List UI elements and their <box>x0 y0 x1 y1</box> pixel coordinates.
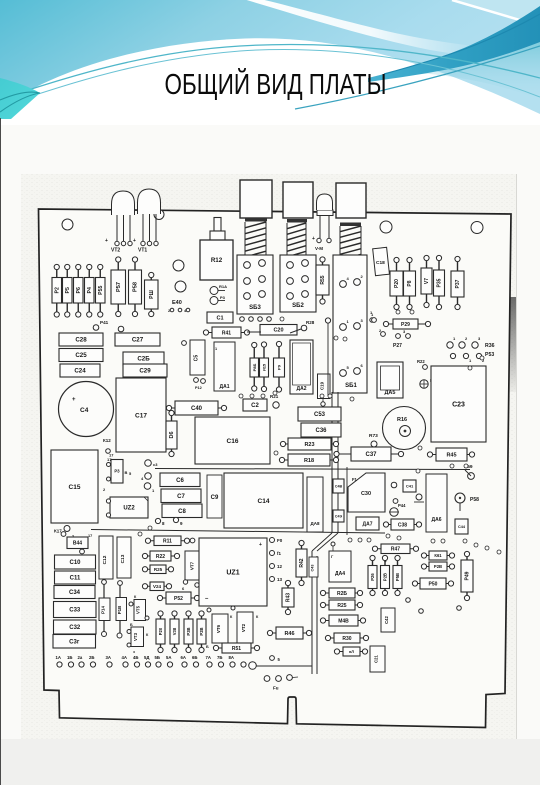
svg-text:Б: Б <box>206 645 209 649</box>
svg-text:Р49: Р49 <box>465 571 471 580</box>
svg-text:R42: R42 <box>299 558 305 567</box>
svg-text:VT2: VT2 <box>111 248 120 254</box>
svg-text:2Б: 2Б <box>89 655 94 660</box>
svg-text:R30: R30 <box>342 636 351 642</box>
svg-text:6А: 6А <box>181 655 187 660</box>
svg-text:R43: R43 <box>286 593 292 602</box>
svg-text:В: В <box>125 470 128 475</box>
svg-text:R41: R41 <box>222 330 231 336</box>
svg-text:VT3: VT3 <box>133 632 138 641</box>
svg-text:C16: C16 <box>227 438 239 445</box>
svg-text:+: + <box>384 559 387 564</box>
svg-text:C6: C6 <box>176 478 184 484</box>
svg-text:C4Э: C4Э <box>335 514 343 518</box>
svg-text:+: + <box>259 542 262 548</box>
svg-text:7Б: 7Б <box>217 655 222 660</box>
svg-text:V7: V7 <box>424 278 430 284</box>
svg-text:C38: C38 <box>398 522 407 528</box>
svg-text:С17: С17 <box>135 412 147 419</box>
svg-text:5А: 5А <box>166 655 172 660</box>
svg-text:SБ2: SБ2 <box>292 303 304 309</box>
svg-text:R28: R28 <box>306 320 315 325</box>
svg-text:С30: С30 <box>361 491 371 497</box>
svg-text:Fu: Fu <box>273 686 279 691</box>
svg-text:R2Б: R2Б <box>337 591 347 597</box>
svg-text:P35: P35 <box>437 278 443 287</box>
svg-text:R18: R18 <box>304 458 314 464</box>
svg-text:8А: 8А <box>229 655 235 660</box>
svg-text:Р41: Р41 <box>100 320 109 325</box>
svg-text:ДА2: ДА2 <box>297 386 307 392</box>
svg-text:R45: R45 <box>446 452 456 458</box>
svg-text:C53: C53 <box>314 412 326 418</box>
svg-text:C5: C5 <box>194 355 200 362</box>
svg-text:С2Б: С2Б <box>137 356 150 363</box>
svg-text:ДА5: ДА5 <box>385 390 396 396</box>
svg-text:P20: P20 <box>394 279 400 288</box>
svg-text:К61: К61 <box>434 553 442 558</box>
svg-text:R1А: R1А <box>219 284 227 289</box>
svg-text:VT5: VT5 <box>136 605 141 614</box>
svg-text:P37: P37 <box>455 279 461 288</box>
svg-text:Р5: Р5 <box>65 287 71 293</box>
svg-text:В44: В44 <box>73 541 82 547</box>
svg-text:Р6: Р6 <box>76 287 82 293</box>
svg-text:С32: С32 <box>69 625 81 631</box>
svg-text:E40: E40 <box>172 300 182 306</box>
svg-text:С20: С20 <box>273 328 283 334</box>
svg-text:+: + <box>312 236 315 242</box>
svg-text:Р8Б: Р8Б <box>252 363 257 371</box>
svg-text:Р2: Р2 <box>54 287 60 293</box>
svg-text:Р50: Р50 <box>429 581 438 587</box>
svg-text:V38: V38 <box>172 627 177 635</box>
svg-text:R36: R36 <box>485 343 495 349</box>
svg-text:VТ2: VТ2 <box>241 623 246 632</box>
svg-text:P53: P53 <box>485 352 494 358</box>
svg-text:13: 13 <box>277 577 283 582</box>
svg-text:F0: F0 <box>277 538 283 543</box>
svg-text:И15: И15 <box>262 363 267 371</box>
svg-text:C7: C7 <box>177 494 185 500</box>
svg-text:Р55: Р55 <box>98 286 104 295</box>
svg-text:С27: С27 <box>132 337 144 344</box>
svg-text:C23: C23 <box>452 401 465 408</box>
svg-text:C4: C4 <box>80 407 89 414</box>
svg-text:R25: R25 <box>337 603 346 609</box>
svg-text:Р2В: Р2В <box>434 564 442 569</box>
svg-text:нЛ: нЛ <box>349 649 354 654</box>
svg-text:Р4: Р4 <box>87 287 93 293</box>
svg-text:17: 17 <box>88 534 92 538</box>
svg-text:C2: C2 <box>251 403 259 409</box>
svg-text:+: + <box>72 397 76 403</box>
svg-text:C15: C15 <box>69 484 81 491</box>
svg-text:С37: С37 <box>365 452 377 458</box>
svg-text:F1: F1 <box>352 477 358 482</box>
svg-text:ДА4: ДА4 <box>335 571 345 577</box>
svg-text:+: + <box>105 238 108 244</box>
svg-text:R22: R22 <box>417 359 425 364</box>
svg-text:4А: 4А <box>122 655 128 660</box>
svg-text:С28: С28 <box>75 337 87 344</box>
svg-text:С13: С13 <box>120 554 126 563</box>
svg-text:Р3В: Р3В <box>186 627 191 635</box>
svg-text:ДА6: ДА6 <box>432 517 442 523</box>
svg-text:1А: 1А <box>56 655 62 660</box>
svg-text:Р26: Р26 <box>370 573 375 581</box>
svg-text:P52: P52 <box>174 596 183 602</box>
svg-text:К12: К12 <box>103 438 111 443</box>
svg-text:R25: R25 <box>154 567 163 572</box>
svg-text:Р44: Р44 <box>398 503 406 508</box>
svg-text:C4В: C4В <box>335 484 343 488</box>
svg-text:6Б: 6Б <box>192 655 197 660</box>
svg-text:Р2В: Р2В <box>199 627 204 635</box>
svg-text:С11: С11 <box>70 576 81 582</box>
svg-text:R12: R12 <box>211 257 223 264</box>
svg-text:VT1: VT1 <box>138 248 147 254</box>
svg-text:3А: 3А <box>106 655 112 660</box>
svg-text:Р5В: Р5В <box>395 573 400 581</box>
svg-text:V24: V24 <box>153 584 162 589</box>
svg-text:C44: C44 <box>458 525 466 529</box>
svg-text:С19: С19 <box>320 381 325 390</box>
svg-text:12: 12 <box>277 564 283 569</box>
svg-text:P8: P8 <box>407 280 413 286</box>
svg-text:5Д: 5Д <box>144 655 149 660</box>
svg-text:С24: С24 <box>74 368 86 375</box>
svg-text:1: 1 <box>215 347 217 351</box>
svg-text:4Б: 4Б <box>133 655 138 660</box>
svg-text:R47: R47 <box>391 547 400 553</box>
svg-text:2а: 2а <box>78 655 83 660</box>
svg-text:С10: С10 <box>69 560 81 566</box>
svg-text:C18: C18 <box>376 260 385 266</box>
svg-text:Р58: Р58 <box>470 497 479 503</box>
svg-text:С3г: С3г <box>69 639 80 645</box>
svg-text:РЗ: РЗ <box>114 469 120 474</box>
svg-text:С42: С42 <box>384 615 389 623</box>
svg-text:R73: R73 <box>369 433 378 439</box>
svg-text:С25: С25 <box>75 352 87 359</box>
svg-text:VT7: VT7 <box>190 561 195 570</box>
svg-text:R46: R46 <box>284 631 294 637</box>
svg-text:C40: C40 <box>191 406 203 412</box>
svg-text:С29: С29 <box>139 368 151 375</box>
svg-text:C41: C41 <box>406 483 414 488</box>
svg-text:UZ2: UZ2 <box>123 506 135 512</box>
svg-text:С34: С34 <box>69 590 81 596</box>
svg-text:Б: Б <box>130 623 133 627</box>
svg-text:Р12: Р12 <box>195 386 202 390</box>
svg-text:R16: R16 <box>397 417 407 423</box>
svg-text:Р1В: Р1В <box>117 606 122 615</box>
svg-text:ДА1: ДА1 <box>220 384 230 390</box>
svg-text:ДА7: ДА7 <box>363 521 373 527</box>
svg-text:С12: С12 <box>102 555 108 564</box>
svg-text:+: + <box>133 238 136 244</box>
svg-text:Р20: Р20 <box>158 627 163 635</box>
svg-text:R11: R11 <box>163 539 172 545</box>
svg-text:R22: R22 <box>156 554 165 560</box>
svg-text:D6: D6 <box>169 431 175 438</box>
svg-text:1Б: 1Б <box>67 655 72 660</box>
svg-text:C36: C36 <box>315 428 327 434</box>
svg-text:C1: C1 <box>216 315 223 321</box>
svg-text:Р57: Р57 <box>116 282 122 292</box>
svg-text:SБ1: SБ1 <box>345 383 357 389</box>
svg-text:C9: C9 <box>211 495 219 501</box>
svg-text:P29: P29 <box>401 322 410 328</box>
svg-text:C43: C43 <box>311 565 315 572</box>
svg-text:Р14: Р14 <box>101 606 106 614</box>
svg-text:f1: f1 <box>277 551 281 556</box>
svg-text:7А: 7А <box>206 655 212 660</box>
svg-text:5Б: 5Б <box>155 655 160 660</box>
svg-text:РШ: РШ <box>149 290 155 299</box>
svg-text:С21: С21 <box>374 654 379 662</box>
svg-text:R23: R23 <box>304 442 314 448</box>
svg-text:Р2В: Р2В <box>383 573 388 581</box>
svg-text:с3: с3 <box>153 462 158 467</box>
svg-text:VТ6: VТ6 <box>216 624 221 633</box>
svg-text:R55: R55 <box>320 275 326 284</box>
svg-text:C14: C14 <box>258 498 270 505</box>
svg-text:Р58: Р58 <box>133 282 139 292</box>
svg-text:V-M: V-M <box>315 246 323 251</box>
svg-text:С33: С33 <box>69 608 81 614</box>
svg-text:P27: P27 <box>393 343 402 349</box>
svg-text:SБ3: SБ3 <box>249 305 261 311</box>
svg-text:ДА8: ДА8 <box>311 521 320 526</box>
svg-text:C8: C8 <box>178 509 186 515</box>
svg-text:М4В: М4В <box>338 618 349 624</box>
svg-text:Р9: Р9 <box>277 364 282 370</box>
svg-text:R51: R51 <box>232 646 241 652</box>
svg-text:з: з <box>133 650 135 654</box>
svg-text:17: 17 <box>109 453 114 458</box>
svg-text:UZ1: UZ1 <box>226 569 239 576</box>
svg-text:Р3: Р3 <box>220 295 226 300</box>
